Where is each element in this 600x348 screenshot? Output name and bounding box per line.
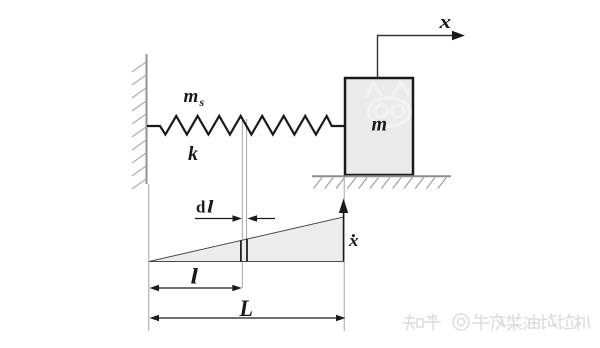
svg-text:m: m [184,86,199,107]
svg-text:s: s [199,95,205,109]
机 [575,315,590,330]
node l marker: thin guide lines from spring element down to triangle [241,119,243,288]
夜 [490,314,505,330]
svg-text:x: x [348,231,359,250]
coordinate axis x [378,36,454,79]
dl arrow right [256,218,275,220]
svg-text:L: L [239,296,253,321]
ground hatching [314,178,447,189]
拖 [541,314,557,329]
svg-text:l: l [191,264,200,289]
dimension L [152,317,343,319]
dimension l [152,287,239,289]
油 [524,317,527,329]
知 [403,314,415,330]
svg-text:m: m [372,114,388,136]
watermark text (faint, hand drawn strokes) [403,314,590,330]
乎 [425,314,440,330]
dl arrow left [195,218,234,220]
svg-text:x: x [438,12,451,33]
柴 [507,314,522,330]
extension line left (below wall, to dimension lines) [148,184,150,331]
extension line right (triangle right edge / block left edge) [343,177,345,331]
拉 [558,314,575,329]
velocity arrow x-dot [343,211,345,261]
mass block m [345,78,413,175]
watermark fox logo inside block [366,82,410,126]
ground under block [312,175,451,177]
spring element slice in triangle [240,240,242,261]
spring k (zigzag with leads) [147,116,344,135]
svg-text:d: d [196,198,206,217]
svg-text:k: k [188,143,198,165]
triangle (velocity profile) [149,217,344,262]
wall [132,54,147,189]
svg-text:l: l [207,197,214,217]
@ [453,314,469,330]
午 [473,314,489,330]
